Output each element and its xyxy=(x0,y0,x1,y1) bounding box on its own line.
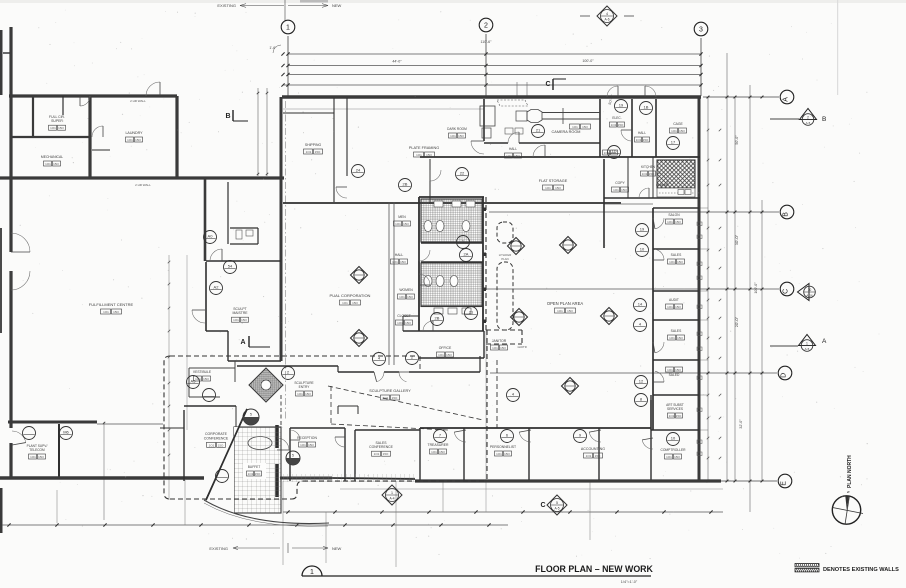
svg-text:A-5: A-5 xyxy=(555,507,560,511)
svg-text:15O: 15O xyxy=(439,450,445,454)
svg-text:1O1: 1O1 xyxy=(671,129,677,133)
svg-text:15O: 15O xyxy=(241,318,247,322)
svg-text:C: C xyxy=(540,502,545,509)
svg-text:2B: 2B xyxy=(435,316,440,321)
svg-text:15O: 15O xyxy=(677,260,683,264)
svg-text:1O1: 1O1 xyxy=(399,295,405,299)
svg-text:15O: 15O xyxy=(500,346,506,350)
svg-text:BUFFET: BUFFET xyxy=(248,465,260,469)
svg-text:15O: 15O xyxy=(555,186,561,190)
svg-text:24: 24 xyxy=(356,168,361,173)
svg-text:1O1: 1O1 xyxy=(392,260,398,264)
svg-text:WOMEN: WOMEN xyxy=(399,288,413,292)
svg-text:1O1: 1O1 xyxy=(103,310,109,314)
svg-text:SALON: SALON xyxy=(668,213,680,217)
svg-text:100'-0": 100'-0" xyxy=(754,282,758,294)
svg-text:1B: 1B xyxy=(644,105,649,110)
svg-text:SCULPTURE GALLERY: SCULPTURE GALLERY xyxy=(369,389,411,393)
svg-text:100'-0": 100'-0" xyxy=(582,59,594,63)
svg-text:4: 4 xyxy=(606,12,608,16)
svg-text:HALL: HALL xyxy=(509,147,517,151)
svg-text:SALES: SALES xyxy=(671,329,682,333)
svg-text:15O: 15O xyxy=(426,153,432,157)
svg-text:54: 54 xyxy=(228,264,233,269)
svg-text:19: 19 xyxy=(619,103,624,108)
svg-text:A: A xyxy=(822,338,827,345)
svg-text:EXISTING: EXISTING xyxy=(217,3,236,8)
svg-text:15O: 15O xyxy=(514,154,520,158)
svg-text:FLOOR PLAN – NEW WORK: FLOOR PLAN – NEW WORK xyxy=(535,564,653,574)
svg-text:PERSONNELIST: PERSONNELIST xyxy=(490,445,516,449)
svg-text:15O: 15O xyxy=(675,220,681,224)
svg-text:ENTRY: ENTRY xyxy=(299,385,311,389)
svg-text:PUAL CORPORATION: PUAL CORPORATION xyxy=(330,293,371,298)
svg-text:1O1: 1O1 xyxy=(545,186,551,190)
svg-text:1O1: 1O1 xyxy=(374,452,380,456)
svg-text:15O: 15O xyxy=(649,172,655,176)
svg-text:C: C xyxy=(782,289,789,294)
svg-text:15O: 15O xyxy=(218,443,224,447)
svg-text:15O: 15O xyxy=(675,305,681,309)
svg-text:VESTIBULE: VESTIBULE xyxy=(193,370,212,374)
svg-text:2 HR WALL: 2 HR WALL xyxy=(130,99,146,103)
svg-text:1O1: 1O1 xyxy=(604,151,610,155)
svg-text:1D: 1D xyxy=(611,149,616,154)
svg-text:1HOTR: 1HOTR xyxy=(517,345,526,349)
svg-text:1: 1 xyxy=(391,491,393,495)
svg-text:1O1: 1O1 xyxy=(667,305,673,309)
svg-text:19: 19 xyxy=(640,227,645,232)
svg-text:1O1: 1O1 xyxy=(586,454,592,458)
svg-text:1O1: 1O1 xyxy=(438,353,444,357)
svg-text:15O: 15O xyxy=(352,301,358,305)
svg-text:A-16: A-16 xyxy=(806,294,813,298)
svg-text:15O: 15O xyxy=(203,377,209,381)
svg-text:15O: 15O xyxy=(113,310,119,314)
svg-text:1O1: 1O1 xyxy=(636,138,642,142)
svg-text:1O1: 1O1 xyxy=(300,443,306,447)
svg-text:17: 17 xyxy=(671,140,676,145)
svg-text:A-4: A-4 xyxy=(390,497,395,501)
svg-text:21: 21 xyxy=(536,128,541,133)
svg-text:22: 22 xyxy=(460,171,465,176)
svg-text:JANITOR: JANITOR xyxy=(492,339,507,343)
svg-text:FULFILLMENT CENTRE: FULFILLMENT CENTRE xyxy=(89,302,134,307)
svg-text:1O1: 1O1 xyxy=(450,134,456,138)
svg-text:15O: 15O xyxy=(383,452,389,456)
svg-text:CAGE: CAGE xyxy=(673,122,683,126)
svg-text:ELEC.: ELEC. xyxy=(612,116,621,120)
svg-text:M6: M6 xyxy=(63,430,69,435)
svg-text:1O1: 1O1 xyxy=(127,138,133,142)
svg-text:1O1: 1O1 xyxy=(666,455,672,459)
svg-text:1O1: 1O1 xyxy=(395,222,401,226)
svg-text:SERVICES: SERVICES xyxy=(667,407,683,411)
svg-text:1O1: 1O1 xyxy=(572,125,578,129)
svg-text:12: 12 xyxy=(639,379,644,384)
svg-text:1O1: 1O1 xyxy=(667,220,673,224)
svg-text:1: 1 xyxy=(806,342,808,346)
svg-text:21: 21 xyxy=(469,310,474,315)
svg-text:1O1: 1O1 xyxy=(306,150,312,154)
svg-text:A-5: A-5 xyxy=(805,347,810,351)
svg-text:15O: 15O xyxy=(674,455,680,459)
svg-text:15O: 15O xyxy=(392,396,398,400)
svg-text:CONFERENCE: CONFERENCE xyxy=(204,436,229,440)
svg-text:1O1: 1O1 xyxy=(248,472,254,476)
svg-text:1O1: 1O1 xyxy=(45,162,51,166)
svg-text:2 HR WALL: 2 HR WALL xyxy=(135,183,151,187)
svg-text:A-5: A-5 xyxy=(806,121,811,125)
svg-text:15O: 15O xyxy=(504,452,510,456)
svg-text:1O1: 1O1 xyxy=(50,126,56,130)
svg-text:RECEPTION: RECEPTION xyxy=(297,436,317,440)
svg-text:SALED: SALED xyxy=(669,373,680,377)
svg-text:D: D xyxy=(780,373,787,378)
svg-text:NEW: NEW xyxy=(332,546,342,551)
svg-text:15O: 15O xyxy=(621,188,627,192)
svg-text:PLAN NORTH: PLAN NORTH xyxy=(847,455,853,488)
svg-text:1O1: 1O1 xyxy=(557,309,563,313)
svg-text:1O1: 1O1 xyxy=(416,153,422,157)
svg-text:KITCHEN: KITCHEN xyxy=(641,165,656,169)
svg-text:CAMERA ROOM: CAMERA ROOM xyxy=(552,130,581,134)
svg-text:3: 3 xyxy=(699,26,703,33)
svg-text:5: 5 xyxy=(250,413,252,417)
svg-text:1O1: 1O1 xyxy=(496,452,502,456)
svg-text:1O1: 1O1 xyxy=(233,318,239,322)
svg-text:1/4"=1'-0": 1/4"=1'-0" xyxy=(621,580,638,584)
svg-text:15O: 15O xyxy=(255,472,261,476)
svg-text:AUDIT: AUDIT xyxy=(669,298,679,302)
svg-text:10: 10 xyxy=(808,288,812,292)
svg-text:EXISTING: EXISTING xyxy=(209,546,228,551)
svg-text:CONFERENCE: CONFERENCE xyxy=(369,445,393,449)
svg-text:1O1: 1O1 xyxy=(30,455,36,459)
svg-text:TELECOM: TELECOM xyxy=(29,448,45,452)
svg-text:OPEN PLAN AREA: OPEN PLAN AREA xyxy=(547,301,584,306)
svg-text:A: A xyxy=(240,339,245,346)
svg-text:LAUNDRY: LAUNDRY xyxy=(125,131,143,135)
svg-text:A2: A2 xyxy=(214,285,220,290)
svg-text:15O: 15O xyxy=(53,162,59,166)
svg-text:1O1: 1O1 xyxy=(431,450,437,454)
svg-text:COMPTROLLER: COMPTROLLER xyxy=(660,448,686,452)
svg-text:1O1: 1O1 xyxy=(209,443,215,447)
svg-text:B: B xyxy=(822,116,826,123)
svg-text:1: 1 xyxy=(286,24,290,31)
svg-text:2A: 2A xyxy=(464,252,469,257)
svg-text:DARK ROOM: DARK ROOM xyxy=(447,127,467,131)
svg-text:B: B xyxy=(782,212,789,217)
svg-text:HALL: HALL xyxy=(638,131,646,135)
svg-text:15O: 15O xyxy=(446,353,452,357)
svg-text:110'-6": 110'-6" xyxy=(481,40,493,44)
svg-text:15O: 15O xyxy=(567,309,573,313)
svg-text:32'-0": 32'-0" xyxy=(739,419,743,429)
svg-text:50'-0": 50'-0" xyxy=(735,135,739,145)
svg-text:PLAN: PLAN xyxy=(501,257,508,261)
svg-text:1O1: 1O1 xyxy=(667,368,673,372)
svg-text:MEN: MEN xyxy=(398,215,406,219)
svg-text:15O: 15O xyxy=(403,222,409,226)
svg-text:HALL: HALL xyxy=(395,253,404,257)
svg-text:15O: 15O xyxy=(643,138,649,142)
svg-text:44'-0": 44'-0" xyxy=(392,60,402,64)
svg-text:TREASURER: TREASURER xyxy=(428,443,449,447)
svg-text:SALES: SALES xyxy=(671,253,682,257)
svg-text:CLOSET: CLOSET xyxy=(397,314,411,318)
svg-text:15O: 15O xyxy=(676,414,682,418)
svg-text:15O: 15O xyxy=(618,123,624,127)
svg-text:1O1: 1O1 xyxy=(613,188,619,192)
svg-text:1O1: 1O1 xyxy=(397,321,403,325)
svg-text:MAISTRE: MAISTRE xyxy=(232,311,248,315)
svg-text:1O1: 1O1 xyxy=(297,392,303,396)
svg-text:5: 5 xyxy=(556,501,558,505)
svg-text:1O1: 1O1 xyxy=(611,123,617,127)
svg-text:1O1: 1O1 xyxy=(669,414,675,418)
svg-text:15O: 15O xyxy=(135,138,141,142)
svg-text:3O'-O": 3O'-O" xyxy=(735,234,739,245)
svg-text:FLAT STORAGE: FLAT STORAGE xyxy=(539,179,568,183)
svg-text:15O: 15O xyxy=(582,125,588,129)
svg-text:1O1: 1O1 xyxy=(506,154,512,158)
svg-text:E: E xyxy=(780,481,787,486)
svg-text:2: 2 xyxy=(484,22,488,29)
svg-text:2O'-O": 2O'-O" xyxy=(735,316,739,327)
svg-text:ACCOUNTING: ACCOUNTING xyxy=(581,447,605,451)
svg-text:15O: 15O xyxy=(305,392,311,396)
svg-text:15O: 15O xyxy=(405,321,411,325)
svg-text:10: 10 xyxy=(640,247,645,252)
svg-text:15O: 15O xyxy=(315,150,321,154)
svg-text:C: C xyxy=(545,81,550,88)
svg-text:1O1: 1O1 xyxy=(342,301,348,305)
svg-text:A0: A0 xyxy=(208,234,214,239)
svg-text:COPY: COPY xyxy=(615,181,625,185)
svg-text:15O: 15O xyxy=(58,126,64,130)
svg-text:15O: 15O xyxy=(458,134,464,138)
svg-text:15O: 15O xyxy=(400,260,406,264)
svg-text:10: 10 xyxy=(671,436,676,441)
svg-text:1O1: 1O1 xyxy=(642,172,648,176)
svg-text:1O1: 1O1 xyxy=(383,396,389,400)
svg-text:2B: 2B xyxy=(403,182,408,187)
svg-text:14: 14 xyxy=(638,302,643,307)
svg-text:15O: 15O xyxy=(675,368,681,372)
svg-text:15O: 15O xyxy=(38,455,44,459)
svg-text:SUPER: SUPER xyxy=(51,119,63,123)
svg-text:1: 1 xyxy=(310,569,314,576)
svg-text:PLATE FRAMING: PLATE FRAMING xyxy=(409,146,439,150)
svg-text:A5: A5 xyxy=(191,379,197,384)
svg-text:1O1: 1O1 xyxy=(492,346,498,350)
svg-text:B: B xyxy=(225,113,230,120)
svg-text:5: 5 xyxy=(292,454,294,458)
svg-text:15O: 15O xyxy=(595,454,601,458)
svg-text:15O: 15O xyxy=(679,129,685,133)
svg-text:DENOTES EXISTING WALLS: DENOTES EXISTING WALLS xyxy=(823,567,899,573)
svg-text:1O1: 1O1 xyxy=(669,260,675,264)
svg-text:A: A xyxy=(782,97,789,102)
svg-text:15O: 15O xyxy=(407,295,413,299)
svg-text:OFFICE: OFFICE xyxy=(439,346,452,350)
svg-text:NEW: NEW xyxy=(332,3,342,8)
svg-text:15O: 15O xyxy=(308,443,314,447)
svg-text:A-6: A-6 xyxy=(605,18,610,22)
svg-text:SHIPPING: SHIPPING xyxy=(305,143,322,147)
svg-text:1O1: 1O1 xyxy=(669,336,675,340)
svg-text:2: 2 xyxy=(807,116,809,120)
svg-text:MECHANICAL: MECHANICAL xyxy=(41,155,63,159)
svg-text:15O: 15O xyxy=(677,336,683,340)
